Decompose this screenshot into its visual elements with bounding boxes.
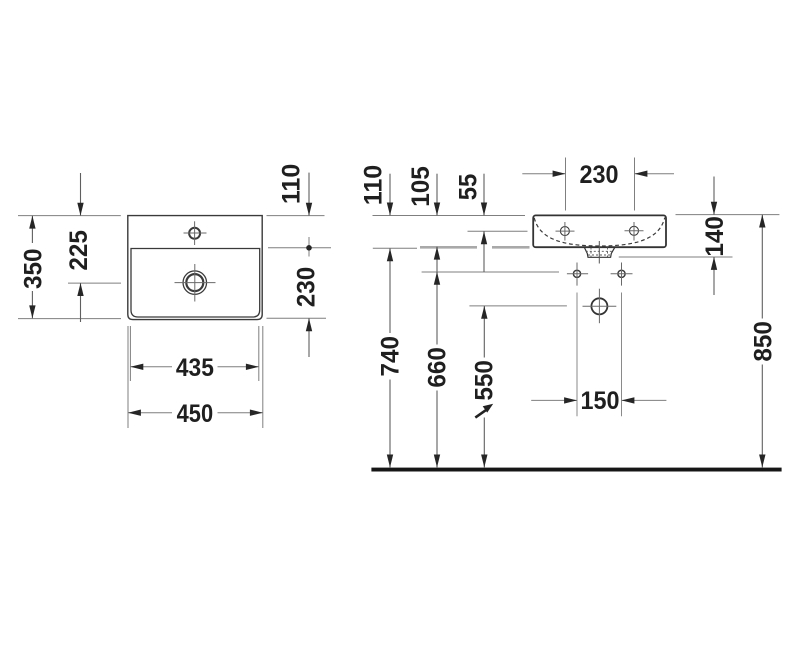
dim 105 elevation <box>436 174 438 216</box>
dim 660 <box>436 272 438 468</box>
svg-text:550: 550 <box>471 360 499 401</box>
drain fitting <box>584 247 615 257</box>
floor line <box>371 468 781 472</box>
dot marker 110/230 <box>306 245 312 251</box>
basin outer rect <box>128 216 262 320</box>
faucet holes elevation <box>560 226 638 235</box>
svg-text:55: 55 <box>454 174 482 201</box>
svg-text:225: 225 <box>65 230 93 271</box>
grey band (overlapping lines) <box>420 246 530 249</box>
body rect <box>533 215 666 247</box>
svg-text:740: 740 <box>377 336 405 377</box>
dim 350 <box>31 216 33 319</box>
mounting holes <box>573 270 625 277</box>
dim 225 <box>80 173 82 322</box>
interior dashed curve <box>534 218 665 247</box>
drain plan <box>183 271 207 295</box>
drain circle elevation <box>591 298 607 314</box>
svg-text:140: 140 <box>701 216 729 257</box>
basin inner rect <box>131 249 260 318</box>
dim 450 <box>128 326 263 428</box>
svg-text:110: 110 <box>359 165 387 206</box>
faucet hole plan <box>189 228 200 239</box>
dim 150 <box>531 399 666 401</box>
svg-text:150: 150 <box>581 387 620 415</box>
dim 140 <box>713 177 715 215</box>
svg-text:450: 450 <box>177 400 214 428</box>
dim 110 plan <box>308 173 310 216</box>
plan extension lines <box>18 216 331 319</box>
hole center extension lines <box>577 293 622 417</box>
svg-text:435: 435 <box>176 354 214 382</box>
svg-text:850: 850 <box>750 321 778 362</box>
dim 230 elevation <box>522 158 674 211</box>
dim 110 elevation <box>389 174 391 216</box>
dim 230 plan <box>308 318 310 357</box>
diagonal arrow near 550 <box>475 410 486 417</box>
fitting centerline <box>598 241 600 264</box>
svg-text:230: 230 <box>580 161 619 189</box>
svg-text:230: 230 <box>293 267 321 308</box>
elevation horizontal construction lines <box>373 215 780 306</box>
svg-text:350: 350 <box>19 249 47 290</box>
svg-text:110: 110 <box>277 164 305 205</box>
svg-text:660: 660 <box>424 347 452 388</box>
dim 740 <box>389 248 391 467</box>
dim 850 <box>761 215 763 468</box>
svg-text:105: 105 <box>407 166 435 207</box>
dim 550 <box>483 306 485 468</box>
dim 55 elevation <box>483 174 485 216</box>
dim 435 <box>130 326 258 381</box>
